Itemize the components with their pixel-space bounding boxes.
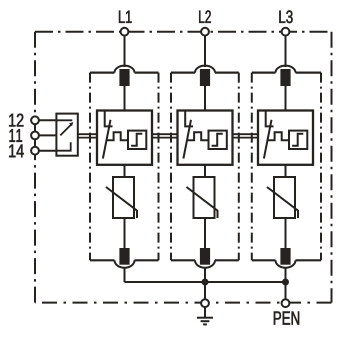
label L3 [279, 10, 292, 23]
trigger step symbol, module 1 [131, 134, 142, 146]
terminal 11 [31, 132, 39, 140]
label L2 [199, 10, 211, 22]
wire: contact to spark gap, module 2 [204, 86, 206, 111]
switch blade arrowhead [69, 122, 73, 126]
trigger step symbol, module 3 [292, 134, 303, 146]
spark gap slanted electrode, module 1 [103, 120, 111, 159]
spark gap electrode stub and foot, module 3 [266, 112, 274, 127]
wire: module 1 stub to earth bus [124, 267, 126, 282]
plug-in contact blade (black), module 2 bottom [200, 248, 210, 265]
plug-in contact blade (black), module 2 top [200, 69, 210, 86]
wire: spark gap to varistor, module 3 [285, 165, 287, 177]
label 12 [9, 114, 23, 127]
trigger square-wave link, module 1 [107, 132, 128, 140]
trigger circuit box, module 3 [289, 131, 307, 149]
plug-in contact top arc, module 3 [276, 66, 296, 73]
varistor body, module 1 [113, 177, 134, 218]
trigger square-wave link, module 3 [268, 132, 289, 140]
trigger step symbol, module 2 [212, 134, 223, 146]
plug-in contact bottom arc, module 1 [115, 260, 135, 268]
plug-in contact top arc, module 1 [115, 66, 135, 73]
surge module 1 enclosure (dash-dot) [90, 73, 159, 261]
terminal 12 [31, 116, 39, 124]
wire: L1 drop to module [124, 36, 126, 67]
wire: module 3 bottom line [252, 259, 321, 261]
surge module 3 enclosure (dash-dot) [252, 73, 321, 261]
wire: module 2 stub to ground terminal [204, 267, 206, 299]
wire: module 3 top feed line [252, 71, 321, 73]
border: earthed enclosure outline (dash-dot) [35, 32, 332, 303]
trigger circuit box, module 2 [209, 131, 227, 149]
wire: terminal 11 lead [39, 134, 57, 136]
mechanical link: module 1 to module 2 (double line) [152, 134, 178, 137]
label L1 [119, 11, 132, 23]
wire: terminal 14 lead [39, 150, 57, 152]
varistor body, module 2 [194, 177, 215, 218]
wire: module 1 bottom line [90, 259, 159, 261]
plug-in contact blade (black), module 3 top [280, 69, 290, 86]
plug-in contact top arc, module 2 [195, 66, 215, 73]
junction dot: earth bus / ground column [202, 279, 209, 286]
switch blade from terminal 11 [60, 124, 71, 135]
varistor diagonal stroke, module 3 [267, 187, 298, 218]
terminal PEN [282, 299, 290, 307]
spark gap electrode stub and foot, module 1 [105, 112, 113, 127]
spark gap slanted electrode, module 3 [264, 120, 272, 159]
contact 14 fixed lead [56, 142, 70, 151]
surge module 2 enclosure (dash-dot) [171, 73, 239, 261]
wire: varistor to bottom contact, module 1 [124, 218, 126, 248]
label 11 [10, 129, 23, 142]
terminal L1 [121, 28, 129, 36]
label 14 [9, 145, 24, 158]
plug-in contact blade (black), module 1 top [119, 69, 129, 86]
wire: contact to spark gap, module 3 [285, 86, 287, 111]
trigger square-wave link, module 2 [187, 132, 208, 140]
terminal 14 [31, 147, 39, 155]
wire: varistor to bottom contact, module 3 [285, 218, 287, 248]
terminal ground [201, 299, 209, 307]
junction dot: earth bus / PEN column [282, 279, 289, 286]
trigger circuit box, module 1 [128, 131, 146, 149]
wire: spark gap to varistor, module 1 [124, 165, 126, 177]
wire: module 1 top feed line [90, 71, 159, 73]
terminal L3 [282, 28, 290, 36]
mechanical link: contact to module 1 (double line) [78, 134, 97, 137]
wire: L2 drop to module [204, 36, 206, 67]
spark gap electrode stub and foot, module 2 [185, 112, 193, 127]
triggered spark gap unit box, module 2 [178, 111, 233, 165]
contact 12 fixed lead [56, 119, 72, 121]
label PEN [274, 312, 299, 325]
wire: varistor to bottom contact, module 2 [204, 218, 206, 248]
mechanical link: module 2 to module 3 (double line) [233, 134, 259, 137]
wire: terminal 12 lead [39, 119, 57, 121]
wire: L3 drop to module [285, 36, 287, 67]
plug-in contact blade (black), module 1 bottom [119, 248, 129, 265]
plug-in contact bottom arc, module 2 [195, 260, 215, 268]
wire: module 2 bottom line [171, 259, 239, 261]
wire: module 2 top feed line [171, 71, 239, 73]
varistor diagonal stroke, module 1 [106, 187, 137, 218]
spark gap slanted electrode, module 2 [183, 120, 191, 159]
triggered spark gap unit box, module 1 [97, 111, 152, 165]
plug-in contact bottom arc, module 3 [276, 260, 296, 268]
ground symbol [197, 307, 213, 324]
varistor diagonal stroke, module 2 [187, 187, 218, 218]
wire: contact to spark gap, module 1 [124, 86, 126, 111]
triggered spark gap unit box, module 3 [258, 111, 313, 165]
changeover signalling contact box S1 [56, 114, 77, 156]
wire: earth bus line [125, 281, 286, 283]
terminal L2 [201, 28, 209, 36]
wire: spark gap to varistor, module 2 [204, 165, 206, 177]
plug-in contact blade (black), module 3 bottom [280, 248, 290, 265]
wire: module 3 stub to PEN terminal [285, 267, 287, 299]
varistor body, module 3 [274, 177, 295, 218]
